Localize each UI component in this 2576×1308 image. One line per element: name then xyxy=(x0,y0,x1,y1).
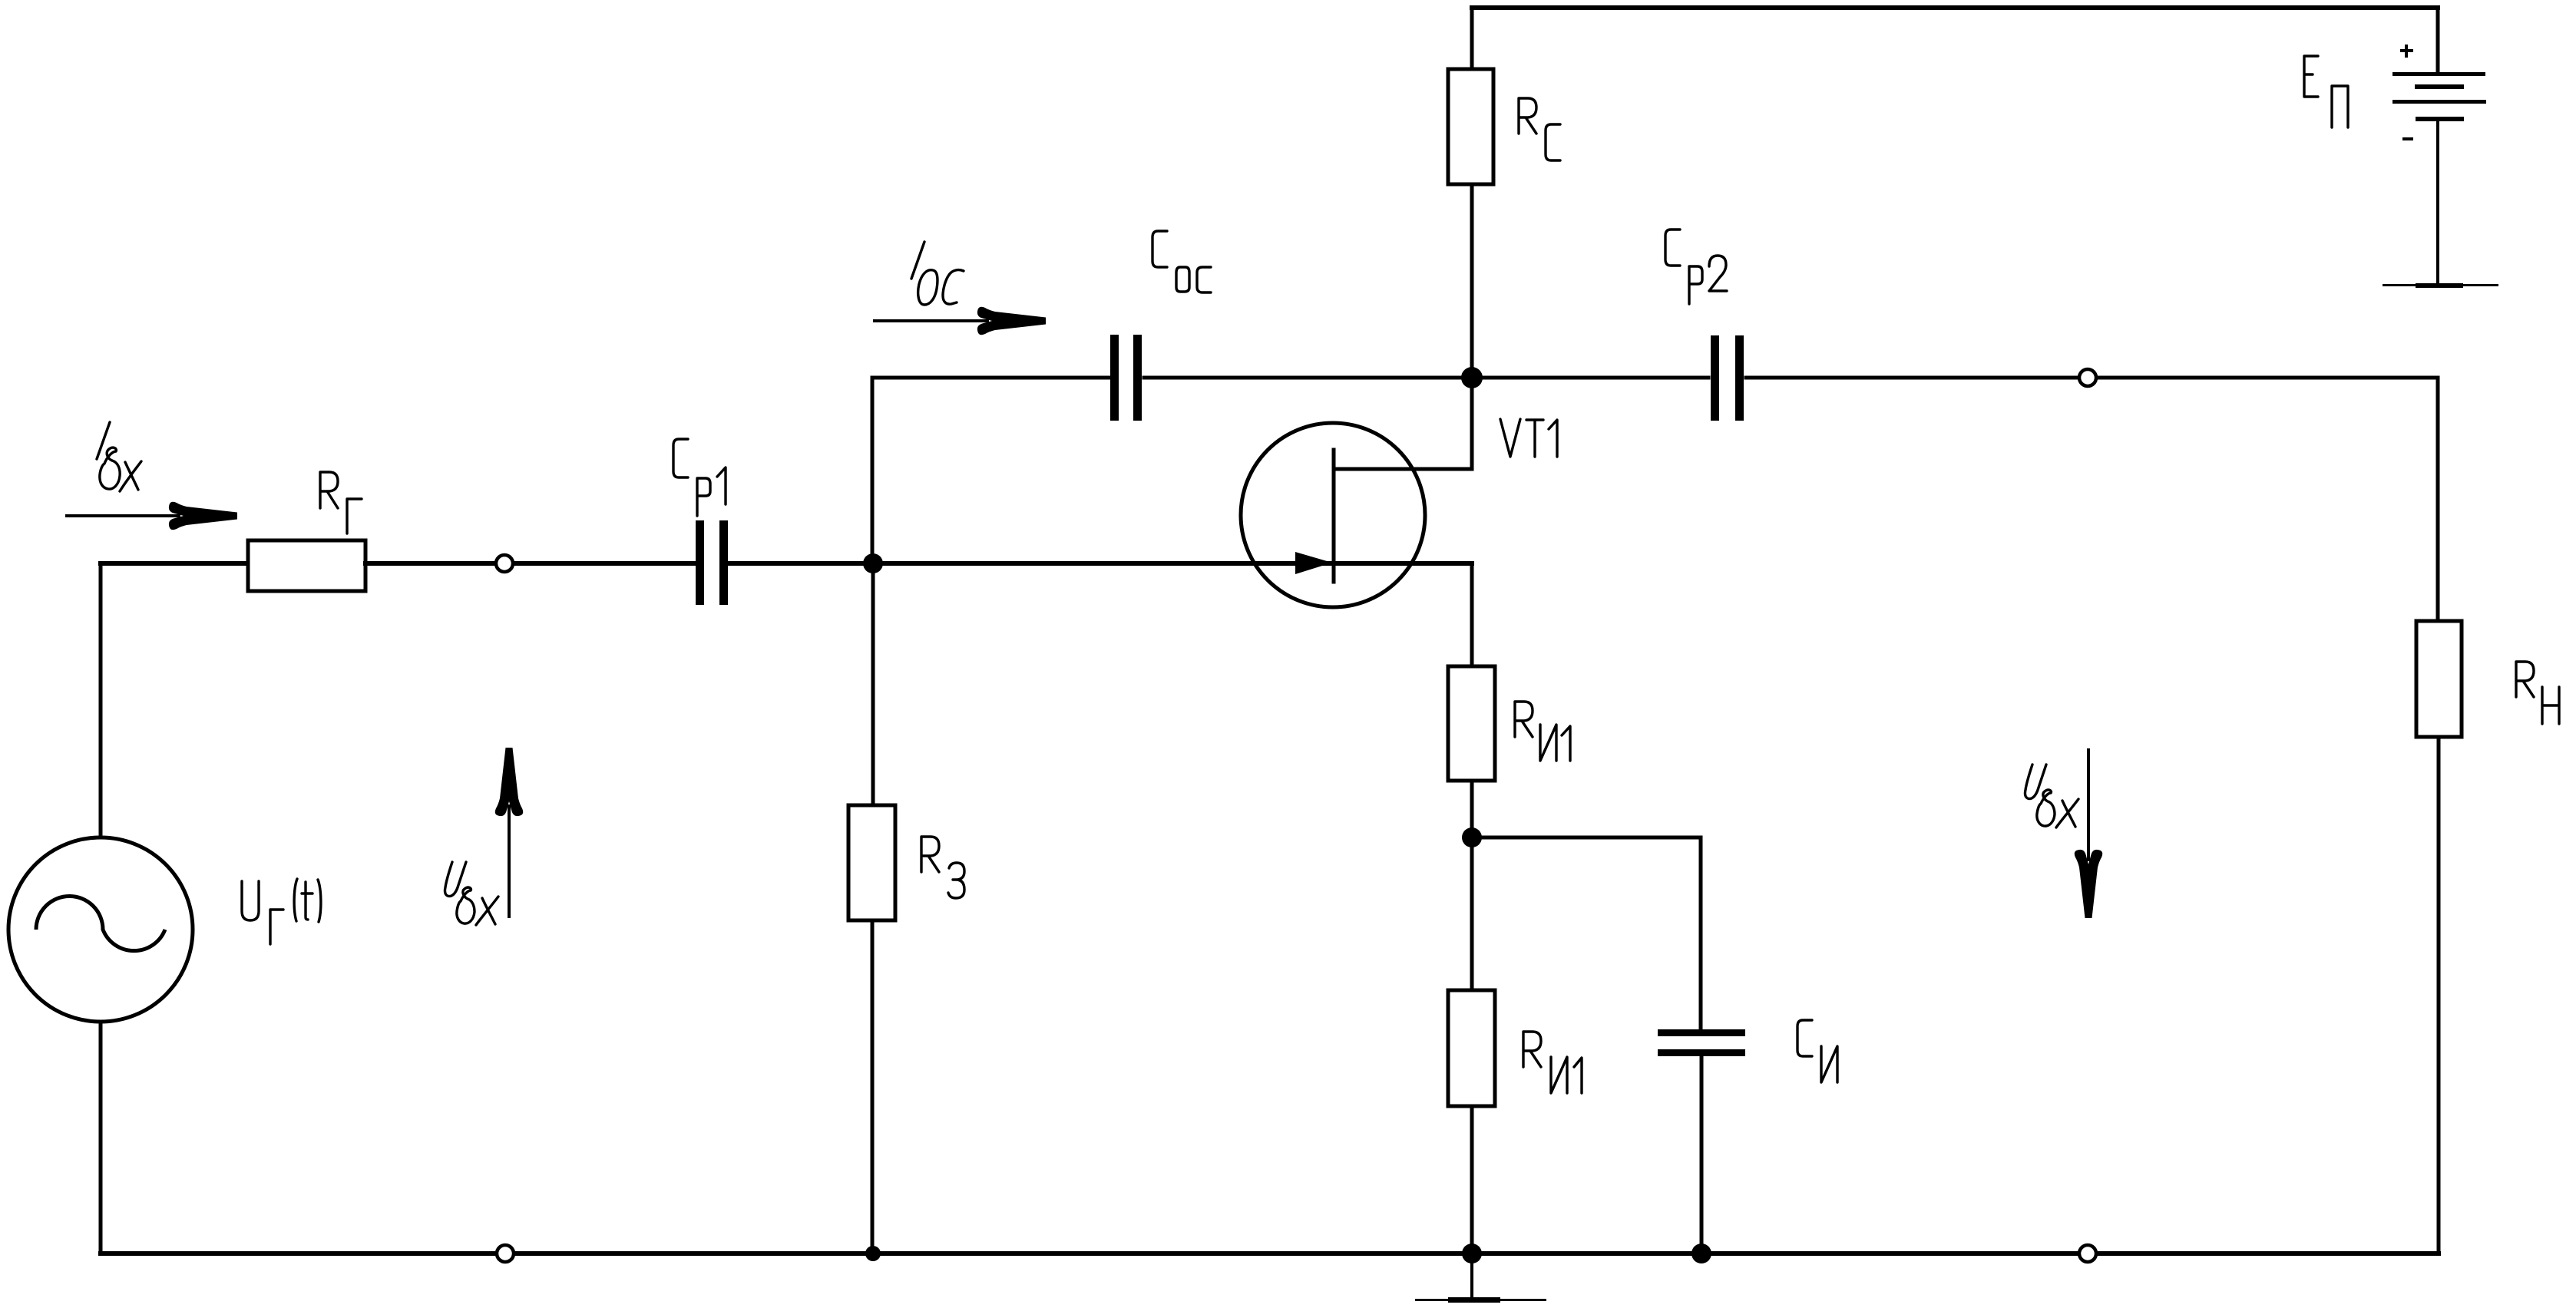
battery EP plate short upper xyxy=(2415,84,2464,89)
label RI1 upper xyxy=(1515,702,1570,761)
label Cp2 xyxy=(1665,230,1727,304)
label Ioc xyxy=(911,242,964,305)
label Ivx xyxy=(97,422,141,491)
arrow Uvx output voltage xyxy=(2075,748,2102,918)
wire battery negative lead xyxy=(2436,119,2439,285)
wire right column down to RH xyxy=(2436,378,2440,621)
wire Cos to drain node xyxy=(1144,376,1708,380)
resistor RI1 upper xyxy=(1448,666,1495,781)
capacitor CI top plate xyxy=(1658,1029,1745,1036)
wire top rail from RC top to battery xyxy=(1472,5,2438,10)
wire output row left segment (feedback corner to Cos) xyxy=(872,376,1109,380)
wire RH bottom lead xyxy=(2437,737,2441,1253)
node source junction dot xyxy=(1462,827,1482,847)
ground bar thick xyxy=(1448,1297,1500,1303)
resistor RH xyxy=(2416,621,2462,737)
capacitor Cp1 right plate xyxy=(719,520,728,605)
source UG sine wave xyxy=(36,897,165,951)
resistor RZ xyxy=(848,805,895,920)
wire RI1 upper to source node xyxy=(1470,781,1474,837)
wire RZ bottom lead xyxy=(871,920,875,1253)
label VT1 xyxy=(1500,419,1557,457)
wire battery positive lead xyxy=(2436,8,2440,72)
wire RC bottom lead to drain node xyxy=(1470,184,1474,378)
capacitor CI bottom plate xyxy=(1658,1049,1745,1056)
label Uvx input xyxy=(445,862,498,925)
resistor RI1 lower xyxy=(1448,990,1495,1106)
source UG circle xyxy=(8,837,193,1022)
transistor VT1 gate arrowhead xyxy=(1295,552,1332,574)
label EP xyxy=(2304,56,2348,127)
wire RI1 lower bottom lead xyxy=(1470,1106,1474,1253)
wire bottom rail middle segment xyxy=(516,1251,2077,1256)
wire Cp1 to gate node and JFET gate/source row xyxy=(730,561,1472,566)
node gate junction dot xyxy=(863,553,883,573)
battery EP plate long lower xyxy=(2392,100,2486,104)
ground stub below RI1 node xyxy=(1470,1253,1473,1299)
label RZ xyxy=(921,837,964,898)
ground battery bar thin xyxy=(2383,284,2498,286)
ground battery bar thick xyxy=(2416,283,2463,288)
battery EP plate short bottom xyxy=(2416,117,2464,121)
transistor VT1 source lead down xyxy=(1470,563,1474,666)
terminal output top circle xyxy=(2079,369,2096,386)
arrow Ioc current xyxy=(873,307,1046,335)
label Cp1 xyxy=(673,439,726,516)
resistor RG xyxy=(248,540,365,591)
label Cos xyxy=(1152,231,1211,292)
node drain junction dot xyxy=(1461,367,1483,388)
capacitor Cos right plate xyxy=(1133,335,1142,421)
wire gate row: source to RG xyxy=(101,561,248,566)
transistor VT1 channel bar xyxy=(1332,450,1336,582)
battery plus sign xyxy=(2400,45,2413,58)
wire CI bottom lead xyxy=(1700,1056,1704,1253)
transistor VT1 body circle xyxy=(1241,423,1425,607)
label RC xyxy=(1519,98,1560,160)
wire RC top lead xyxy=(1470,8,1474,69)
node RZ ground dot xyxy=(865,1246,881,1261)
label UGt xyxy=(242,879,321,944)
resistor RC xyxy=(1448,69,1493,184)
transistor VT1 drain lead xyxy=(1334,380,1472,469)
wire RZ top lead from gate node xyxy=(871,563,875,805)
wire input terminal to Cp1 xyxy=(515,561,694,566)
wire source node down to RI1 lower xyxy=(1470,837,1474,990)
wire output terminal to right corner xyxy=(2098,376,2438,380)
label RG xyxy=(320,472,362,533)
wire bottom rail left segment xyxy=(101,1251,494,1256)
wire bottom rail right segment xyxy=(2098,1251,2439,1256)
capacitor Cp2 right plate xyxy=(1735,335,1744,421)
wire source bottom lead xyxy=(99,1022,103,1253)
battery minus sign xyxy=(2402,137,2413,140)
capacitor Cp2 left plate xyxy=(1711,335,1719,421)
arrow Uvx input voltage xyxy=(495,748,523,918)
wire feedback vertical (gate node up to output row) xyxy=(871,378,875,563)
wire source node to CI branch xyxy=(1472,837,1701,1029)
node CI ground dot xyxy=(1691,1244,1711,1263)
wire Cp2 to output terminal xyxy=(1746,376,2077,380)
arrow Ivx current xyxy=(65,502,237,530)
capacitor Cp1 left plate xyxy=(696,520,704,605)
wire RG to input terminal xyxy=(365,561,494,566)
label RI1 lower xyxy=(1523,1032,1582,1093)
ground bar thin xyxy=(1415,1299,1546,1301)
wire left column source top lead xyxy=(99,563,103,837)
label Uvx output xyxy=(2025,765,2078,827)
terminal bottom left circle xyxy=(497,1245,514,1262)
terminal input circle xyxy=(496,555,513,572)
node RI1 ground dot xyxy=(1462,1244,1482,1263)
battery EP plate long top xyxy=(2392,72,2485,76)
terminal bottom right circle xyxy=(2079,1245,2096,1262)
capacitor Cos left plate xyxy=(1110,335,1119,421)
label CI xyxy=(1797,1020,1837,1082)
label RH xyxy=(2516,662,2559,724)
